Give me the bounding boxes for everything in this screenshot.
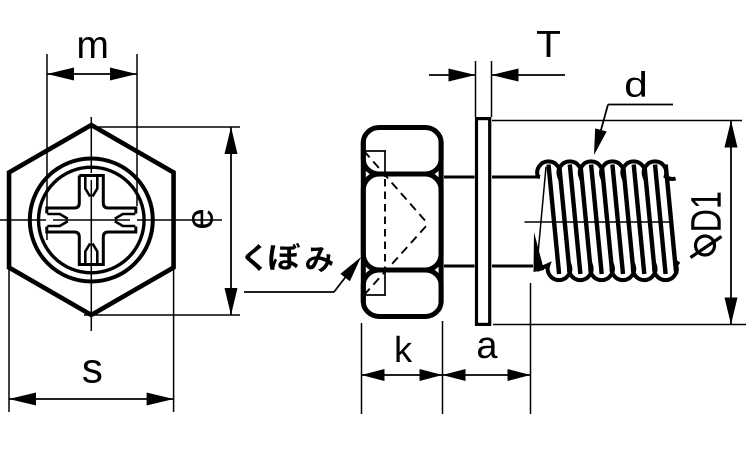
dimension s extension lines xyxy=(8,267,10,412)
dimension k label xyxy=(396,336,412,362)
dimension s line and arrows xyxy=(9,398,174,400)
dimension a extension line xyxy=(530,283,532,414)
recess cone hidden line upper (dashed) xyxy=(364,151,428,224)
kubomi leader line xyxy=(244,291,334,293)
dimension T label xyxy=(537,31,560,57)
thread runout wedge xyxy=(534,232,545,272)
dimension s label xyxy=(83,360,101,383)
front view horizontal centerline xyxy=(0,219,46,221)
dimension T extension lines xyxy=(475,61,477,117)
dimension e label xyxy=(192,210,213,228)
side view facet boundary lines xyxy=(370,172,435,176)
dimension m line and arrows xyxy=(47,73,137,75)
recess cone hidden line lower (dashed) xyxy=(364,224,428,295)
thread crest top line xyxy=(537,161,675,179)
front view phillips cross recess outline xyxy=(47,176,136,265)
dimension a label xyxy=(478,338,498,359)
dimension e line and arrows xyxy=(230,127,232,315)
recess depth outline (thin) xyxy=(364,150,386,152)
label d xyxy=(626,71,645,97)
side view head outer side edges xyxy=(361,141,366,303)
dimension D1 line and arrows xyxy=(730,121,732,325)
dimension e extension lines xyxy=(95,126,240,128)
front view head outer chamfer circle xyxy=(30,159,153,282)
spring washer xyxy=(477,119,490,325)
front view vertical centerline xyxy=(90,117,92,173)
side view hex head middle facet xyxy=(363,174,441,270)
dimension T line and arrows xyxy=(429,74,476,76)
thread flank strokes xyxy=(549,165,677,275)
kubomi text (drawn glyphs) xyxy=(245,243,333,272)
dimension m extension lines xyxy=(46,54,48,208)
phillips recess inner slot lines xyxy=(85,176,97,197)
dimension k extension lines xyxy=(361,323,363,414)
side view hex head bottom facet xyxy=(363,270,441,317)
side view hex head top facet xyxy=(363,128,441,175)
thread crest bottom line xyxy=(537,262,679,281)
front view hexagon head outline xyxy=(9,125,174,315)
D1 label text xyxy=(691,193,721,230)
front view head inner circle xyxy=(39,167,145,273)
dimension k line and arrows xyxy=(362,374,443,376)
thread runout thin line xyxy=(537,167,547,270)
shank bottom line xyxy=(444,265,475,268)
dimension D1 extension lines xyxy=(492,120,742,122)
label d leader line xyxy=(608,104,673,106)
recess hidden line vertical (dashed) xyxy=(384,179,386,270)
dimension a line and arrows xyxy=(443,374,531,376)
dimension m label xyxy=(79,37,106,58)
thread centerline xyxy=(525,221,670,223)
shank top line xyxy=(444,176,475,179)
phi symbol of D1 label xyxy=(696,236,715,255)
